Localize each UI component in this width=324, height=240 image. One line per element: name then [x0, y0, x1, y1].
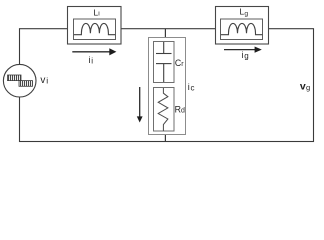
capacitor Cr	[154, 42, 175, 83]
label ic	[188, 82, 195, 92]
svg-text:R: R	[175, 104, 181, 114]
svg-text:i: i	[242, 50, 244, 60]
wire stub bottom of branch	[164, 135, 166, 142]
source vi	[3, 64, 36, 97]
svg-text:g: g	[244, 51, 248, 60]
svg-text:v: v	[300, 81, 306, 93]
branch outer box	[149, 38, 186, 135]
label Li	[93, 7, 100, 17]
label Lg	[239, 7, 248, 18]
svg-text:d: d	[181, 108, 185, 115]
wire stub top of branch	[164, 29, 166, 38]
wire loop	[20, 29, 314, 142]
svg-text:g: g	[244, 10, 248, 17]
label Rd	[175, 104, 185, 114]
svg-text:v: v	[40, 75, 45, 86]
svg-text:i: i	[46, 76, 48, 86]
svg-text:i: i	[89, 55, 91, 65]
label ii	[89, 55, 94, 65]
label vg	[300, 81, 310, 93]
svg-text:g: g	[306, 83, 310, 92]
current arrow ic	[137, 87, 143, 123]
current arrow ii	[72, 48, 116, 55]
label Cr	[175, 58, 184, 68]
label vi	[40, 75, 48, 86]
label ig	[242, 50, 249, 61]
svg-text:c: c	[191, 83, 195, 92]
inductor Lg	[216, 7, 269, 45]
current arrow ig	[224, 47, 262, 53]
resistor Rd	[154, 88, 175, 132]
svg-text:i: i	[188, 82, 190, 92]
svg-text:i: i	[91, 56, 93, 65]
inductor Li	[68, 7, 122, 45]
